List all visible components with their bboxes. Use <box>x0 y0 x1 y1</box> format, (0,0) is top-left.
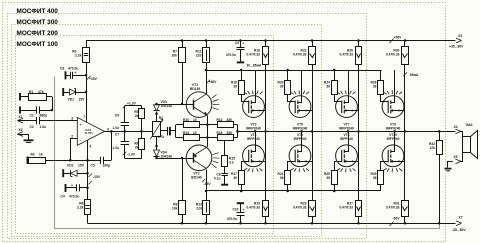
svg-text:IRFP240: IRFP240 <box>340 137 353 141</box>
svg-text:IRFP9240: IRFP9240 <box>293 126 308 130</box>
svg-text:X5: X5 <box>454 155 458 159</box>
transistor VT7 IRFP9240 <box>336 96 358 118</box>
connector pad bar (C1 left) <box>19 107 21 114</box>
svg-text:C9: C9 <box>235 41 239 45</box>
capacitor C2 1.0u <box>18 120 37 122</box>
svg-text:1N4148: 1N4148 <box>161 104 173 108</box>
zener VD1 15V <box>62 88 64 96</box>
svg-text:0.47/0.33: 0.47/0.33 <box>339 52 353 56</box>
wire VT9 drain to gate bus <box>394 70 396 96</box>
frame MOSFIT 200 (dashed) <box>12 25 322 237</box>
svg-text:IRFP240: IRFP240 <box>247 137 260 141</box>
svg-text:1.0u: 1.0u <box>112 146 119 150</box>
wire rail junction stage4 upper <box>404 39 407 42</box>
diode VD4 1N4148 <box>154 150 160 156</box>
svg-text:1N4148: 1N4148 <box>161 154 173 158</box>
svg-text:+15V: +15V <box>89 77 98 81</box>
wire -15V column <box>87 160 89 199</box>
svg-text:X7: X7 <box>459 216 463 220</box>
svg-text:15V: 15V <box>78 164 85 168</box>
node -50V annotation <box>390 222 394 227</box>
connector X7 arrow <box>456 221 462 223</box>
svg-text:X4: X4 <box>454 125 458 129</box>
wire VT4 drain to output bus <box>255 131 257 145</box>
svg-text:X3: X3 <box>458 34 462 38</box>
node -1.3V annotation <box>123 152 127 156</box>
wire rows to output bus <box>237 125 239 138</box>
node +50V annotation <box>390 39 394 44</box>
transistor VT3 IRFP9240 <box>243 96 265 118</box>
connector X4 arrow <box>455 129 461 131</box>
svg-text:МОСФИТ 400: МОСФИТ 400 <box>17 8 59 15</box>
ground (input) <box>24 139 34 141</box>
wire R13 to VT2 collector <box>206 170 208 201</box>
svg-text:-1.3V: -1.3V <box>127 152 136 156</box>
transistor VT4 IRFP240 case marks <box>244 168 247 170</box>
connector X1 arrow <box>18 118 24 120</box>
svg-text:7: 7 <box>83 115 85 119</box>
wire upper gate bus <box>206 70 382 72</box>
svg-text:220: 220 <box>196 207 202 211</box>
wire +1.3V link <box>125 105 142 107</box>
wire row1 to output node <box>233 124 237 126</box>
svg-text:39: 39 <box>326 176 330 180</box>
svg-text:470.0u: 470.0u <box>226 53 236 57</box>
wire R26 to source <box>358 64 360 131</box>
node annotation near C4 <box>89 181 92 184</box>
wire rail junction stage1 upper <box>264 39 267 42</box>
svg-text:C3: C3 <box>60 66 64 70</box>
wire R18 to source <box>265 64 267 131</box>
wire R9 to VT2 base line <box>182 158 184 200</box>
node +46V annotation <box>207 80 210 83</box>
svg-text:+: + <box>71 184 73 188</box>
svg-text:39: 39 <box>373 84 377 88</box>
transistor VT6 IRFP240 <box>289 145 311 167</box>
wire rail junction stage2 upper <box>311 39 314 42</box>
node +15V annotation <box>87 76 91 80</box>
wire trimmer to VD4 <box>156 137 158 150</box>
svg-text:IRFP240: IRFP240 <box>387 137 400 141</box>
svg-text:0.1u: 0.1u <box>214 176 221 180</box>
frame MOSFIT 300 (dashed) <box>8 14 367 239</box>
capacitor C4 470.0u <box>65 184 67 192</box>
wire R5 to mid node <box>141 119 143 131</box>
wire op-amp pin2 <box>71 139 78 161</box>
wire stage3 upper source link <box>357 110 359 112</box>
svg-text:30...65мА: 30...65мА <box>247 63 262 67</box>
svg-text:МОСФИТ 100: МОСФИТ 100 <box>17 41 59 48</box>
wire R30 to source <box>404 64 406 131</box>
svg-text:15V: 15V <box>79 98 86 102</box>
node +1.3V annotation <box>123 105 127 109</box>
svg-text:R2: R2 <box>31 152 35 156</box>
svg-text:39: 39 <box>373 176 377 180</box>
transistor VT9 IRFP9240 <box>382 96 404 118</box>
wire R11 to VT1 collector <box>206 63 208 94</box>
node -15V annotation <box>89 174 93 178</box>
svg-text:0.47/0.33: 0.47/0.33 <box>246 205 260 209</box>
capacitor C8 (bias) <box>160 130 167 132</box>
svg-text:-35...80V: -35...80V <box>452 228 466 232</box>
wire C2 to op-amp pin3 <box>39 120 77 122</box>
wire VT3 drain to gate bus <box>255 70 257 96</box>
transistor VT5 IRFP9240 <box>289 96 311 118</box>
wire +50V top rail <box>86 40 456 42</box>
svg-text:+46V: +46V <box>209 80 218 84</box>
svg-text:680p: 680p <box>40 113 48 117</box>
svg-text:C4: C4 <box>61 195 65 199</box>
transistor VT10 IRFP240 case marks <box>383 168 386 170</box>
wire VT2 base line <box>157 158 187 160</box>
transistor VT5 IRFP9240 case marks <box>290 92 293 94</box>
svg-text:-50V: -50V <box>393 216 401 220</box>
svg-text:TL071: TL071 <box>84 131 93 135</box>
svg-text:+35...80V: +35...80V <box>449 45 464 49</box>
svg-text:0.47/0.33: 0.47/0.33 <box>293 52 307 56</box>
wire rail to R3 <box>86 41 88 48</box>
svg-text:470.0u: 470.0u <box>68 66 78 70</box>
svg-text:470.0u: 470.0u <box>69 195 79 199</box>
svg-text:1.0u: 1.0u <box>40 125 47 129</box>
svg-text:39: 39 <box>233 84 237 88</box>
svg-text:C6: C6 <box>115 113 119 117</box>
wire R22 to source <box>312 64 314 131</box>
wire stage1 upper source link <box>264 110 266 112</box>
board outline (grey) <box>55 77 440 229</box>
transistor VT8 IRFP240 <box>336 145 358 167</box>
wire op-amp pin4 <box>87 140 89 160</box>
wire VT5 drain to gate bus <box>301 70 303 96</box>
svg-text:10k: 10k <box>172 207 178 211</box>
svg-text:BD139: BD139 <box>190 87 201 91</box>
svg-text:100p: 100p <box>103 164 111 168</box>
transistor VT6 IRFP240 case marks <box>290 168 293 170</box>
svg-text:+: + <box>74 71 76 75</box>
svg-text:2.2k: 2.2k <box>77 206 84 210</box>
wire speaker bottom <box>461 153 463 162</box>
connector X5 arrow <box>447 161 453 163</box>
svg-text:C1: C1 <box>30 113 34 117</box>
wire feedback to output node <box>111 131 113 160</box>
wire lower gate bus <box>206 190 381 192</box>
connector X3 arrow <box>456 38 462 40</box>
svg-text:1k: 1k <box>39 152 43 156</box>
wire R8 to mid node <box>141 131 143 139</box>
wire VT7 drain to gate bus <box>348 70 350 96</box>
svg-text:X2: X2 <box>19 128 23 132</box>
svg-text:C7: C7 <box>115 132 119 136</box>
wire stage2 upper source link <box>310 110 312 112</box>
connector X2 arrow <box>18 132 24 134</box>
wire driver emitters link <box>207 125 209 138</box>
svg-text:2.2k: 2.2k <box>75 54 82 58</box>
svg-text:+: + <box>242 42 244 46</box>
wire R5/R8 node to trimmer <box>142 131 153 133</box>
svg-text:0.47/0.33: 0.47/0.33 <box>386 52 400 56</box>
wire stage4 lower source link <box>403 161 405 163</box>
wire op-amp output <box>105 131 153 133</box>
svg-text:МОСФИТ 300: МОСФИТ 300 <box>17 19 59 26</box>
svg-text:BD140: BD140 <box>191 175 202 179</box>
transistor VT8 IRFP240 case marks <box>337 168 340 170</box>
svg-text:3: 3 <box>71 117 73 121</box>
ground bar (C10) <box>237 202 244 204</box>
wire R6 to bottom rail <box>87 215 89 224</box>
svg-text:39: 39 <box>280 84 284 88</box>
svg-text:–: – <box>80 138 82 142</box>
svg-text:47k: 47k <box>430 146 436 150</box>
svg-text:0.47/0.33: 0.47/0.33 <box>339 205 353 209</box>
wire X2 to ground <box>18 135 29 140</box>
svg-text:+: + <box>80 123 82 127</box>
wire stage3 lower source link <box>357 161 359 163</box>
transistor VT2 case marks <box>212 164 217 168</box>
wire rail junction stage3 upper <box>357 39 360 42</box>
capacitor C5 100p <box>100 157 102 164</box>
svg-text:0.47/0.33: 0.47/0.33 <box>293 205 307 209</box>
svg-text:IRFP9240: IRFP9240 <box>246 126 261 130</box>
svg-text:VD1: VD1 <box>68 98 75 102</box>
svg-text:10k: 10k <box>171 54 177 58</box>
svg-text:220: 220 <box>196 54 202 58</box>
svg-text:+: + <box>242 208 244 212</box>
svg-text:0.47/0.33: 0.47/0.33 <box>246 52 260 56</box>
wire rows junction <box>175 125 177 138</box>
svg-text:39: 39 <box>233 176 237 180</box>
wire -1.3V link <box>125 158 142 160</box>
ground bar (C9) <box>237 61 244 63</box>
wire stage1 lower source link <box>264 161 266 163</box>
svg-text:-46V: -46V <box>204 182 212 186</box>
wire VT1 base line <box>157 104 187 106</box>
svg-text:0.47/0.33: 0.47/0.33 <box>386 205 400 209</box>
svg-text:C10: C10 <box>233 208 239 212</box>
transistor VT9 IRFP9240 case marks <box>383 92 386 94</box>
svg-text:4: 4 <box>89 145 91 149</box>
wire VT6 drain to output bus <box>301 131 303 145</box>
transistor VT10 IRFP240 <box>382 145 404 167</box>
transistor VT1 case marks <box>212 95 217 99</box>
diode VD3 1N4148 <box>154 105 160 111</box>
capacitor C1 680p <box>20 110 36 112</box>
op-amp DA1 TL071 <box>77 117 104 145</box>
svg-text:+50V: +50V <box>394 36 403 40</box>
transistor VT4 IRFP240 <box>243 145 265 167</box>
ground bar (C8) <box>221 184 228 186</box>
svg-text:IRFP9240: IRFP9240 <box>386 126 401 130</box>
svg-text:4.7k: 4.7k <box>158 135 165 139</box>
wire -50V bottom rail <box>88 223 456 225</box>
wire row2 to output node <box>233 137 237 139</box>
wire R7 to VT1 base line <box>182 63 184 104</box>
svg-text:C5: C5 <box>91 164 95 168</box>
resistor R15 3.3 <box>224 141 226 156</box>
frame MOSFIT 100 (dashed) <box>16 36 274 234</box>
svg-text:BA1: BA1 <box>466 123 473 127</box>
transistor VT3 IRFP9240 case marks <box>244 92 247 94</box>
svg-text:3.3: 3.3 <box>229 161 234 165</box>
svg-text:IRFP9240: IRFP9240 <box>339 126 354 130</box>
ground (output) <box>447 161 449 167</box>
wire VT8 drain to output bus <box>348 131 350 145</box>
svg-text:39: 39 <box>326 84 330 88</box>
wire R3 to +15V node <box>86 62 88 122</box>
svg-text:1.0u: 1.0u <box>112 126 119 130</box>
svg-text:IRFP240: IRFP240 <box>294 137 307 141</box>
svg-text:VD2: VD2 <box>67 164 74 168</box>
wire R1-C1 junction <box>52 97 54 110</box>
connector pad bar (R1 left) <box>19 93 21 101</box>
wire output bus <box>238 131 456 133</box>
svg-text:-15V: -15V <box>93 175 101 179</box>
svg-text:65мА: 65мА <box>410 73 419 77</box>
wire stage2 lower source link <box>310 161 312 163</box>
svg-text:C2: C2 <box>30 125 34 129</box>
svg-text:470.0u: 470.0u <box>227 217 237 221</box>
svg-text:МОСФИТ 200: МОСФИТ 200 <box>17 30 59 37</box>
svg-text:39: 39 <box>280 176 284 180</box>
node -46V annotation <box>202 179 205 182</box>
transistor VT7 IRFP9240 case marks <box>337 92 340 94</box>
wire stage4 upper source link <box>403 110 405 112</box>
wire speaker top <box>461 132 463 137</box>
wire VT10 drain to output bus <box>394 131 396 145</box>
svg-text:2: 2 <box>71 134 73 138</box>
